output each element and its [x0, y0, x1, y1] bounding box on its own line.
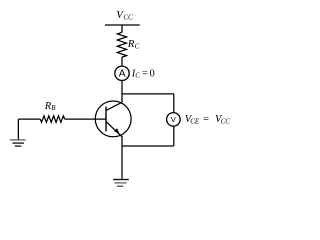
- svg-text:C: C: [135, 43, 140, 51]
- svg-text:=: =: [203, 114, 209, 125]
- svg-text:R: R: [127, 38, 135, 50]
- svg-text:B: B: [51, 104, 56, 112]
- svg-text:0: 0: [150, 68, 155, 79]
- svg-text:CC: CC: [123, 13, 133, 21]
- svg-text:=: =: [142, 68, 148, 79]
- svg-text:CC: CC: [221, 118, 231, 126]
- svg-text:C: C: [135, 72, 140, 80]
- svg-text:CE: CE: [190, 118, 200, 126]
- svg-text:A: A: [119, 69, 126, 80]
